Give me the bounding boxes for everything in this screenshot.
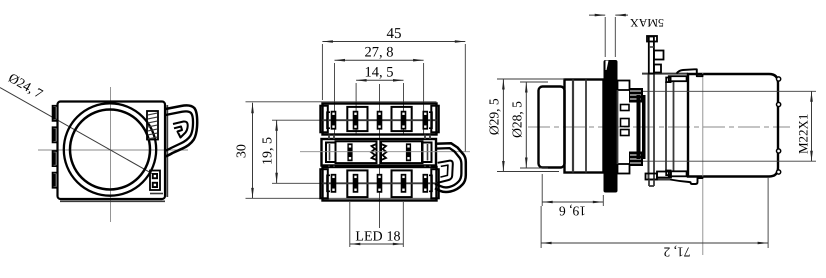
svg-text:LED: LED (355, 229, 382, 244)
svg-text:71, 2: 71, 2 (664, 245, 691, 260)
svg-text:19, 5: 19, 5 (261, 137, 276, 165)
svg-text:M22X1: M22X1 (796, 114, 811, 154)
svg-text:45: 45 (386, 26, 401, 42)
svg-text:5MAX: 5MAX (630, 16, 664, 30)
svg-text:Ø28, 5: Ø28, 5 (510, 101, 525, 138)
svg-text:Ø29, 5: Ø29, 5 (487, 98, 502, 135)
svg-text:19, 6: 19, 6 (559, 204, 586, 219)
svg-text:30: 30 (234, 144, 249, 158)
svg-text:27, 8: 27, 8 (364, 44, 393, 60)
svg-text:14, 5: 14, 5 (364, 64, 393, 80)
svg-text:18: 18 (386, 229, 400, 244)
